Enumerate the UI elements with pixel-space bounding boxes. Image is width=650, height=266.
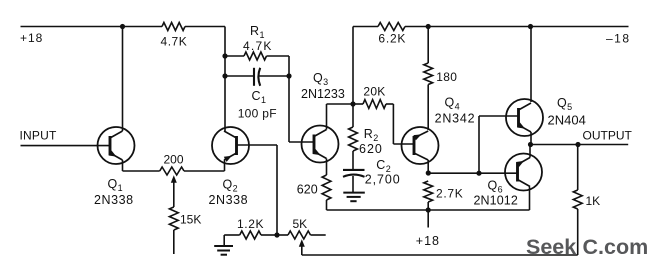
svg-text:1.2K: 1.2K	[237, 217, 264, 231]
transistor Q3 2N1233	[302, 126, 339, 163]
wire: Q5 emitter down to output node	[530, 132, 532, 145]
wire: 620 bottom to +18 rail corner	[326, 200, 328, 210]
svg-text:2N338: 2N338	[94, 193, 134, 207]
node: Q5/Q6 base branch	[476, 171, 481, 176]
wire: Q1 collector up to +18 rail	[122, 27, 124, 132]
svg-text:180: 180	[436, 70, 457, 84]
node: 180 branch at rail	[426, 24, 431, 29]
resistor 180	[424, 63, 433, 130]
svg-text:5K: 5K	[293, 217, 308, 231]
node: 20K / Q3 collector / R2 junction	[350, 101, 355, 106]
wire: Q2 emitter down to 200	[224, 160, 226, 171]
+18 terminal stub	[427, 210, 429, 228]
wire: up to Q5 base	[479, 116, 519, 173]
svg-text:INPUT: INPUT	[20, 129, 57, 143]
resistor 200 (pot body)	[123, 167, 225, 175]
svg-text:200: 200	[163, 153, 183, 167]
svg-text:620: 620	[297, 183, 318, 197]
wire: Q1 emitter down	[122, 160, 124, 171]
svg-text:2,700: 2,700	[365, 173, 401, 187]
svg-text:C.com: C.com	[583, 235, 649, 259]
resistor R2 620	[349, 127, 358, 170]
feedback bottom rail	[302, 254, 578, 256]
node: R1 left junction	[222, 53, 227, 58]
resistor 620 emitter Q3	[322, 175, 331, 200]
wire: rail drop to Q2 collector / R1C1 left	[224, 27, 226, 132]
svg-text:2N342: 2N342	[435, 112, 476, 126]
transistor Q5 2N404	[506, 99, 543, 136]
wire: rail to 180	[427, 27, 429, 64]
svg-text:+18: +18	[20, 31, 43, 45]
svg-text:100 pF: 100 pF	[238, 107, 277, 121]
svg-text:OUTPUT: OUTPUT	[583, 129, 633, 143]
wire: 20K right end down to Q4 base	[393, 104, 413, 144]
wire: input to Q1 base	[21, 145, 111, 147]
wire: rail corner down through 20K node to R2	[352, 27, 354, 128]
svg-text:620: 620	[359, 142, 383, 156]
node: C1 right junction	[286, 73, 291, 78]
svg-text:20K: 20K	[363, 85, 385, 99]
wire: Q5 collector up to -18 rail	[530, 27, 532, 103]
svg-text:2.7K: 2.7K	[436, 187, 464, 201]
svg-text:2N404: 2N404	[548, 112, 586, 127]
wire: Q6 collector down to +18 rail	[529, 187, 531, 211]
+18 bottom rail	[327, 209, 530, 211]
svg-text:–18: –18	[606, 32, 631, 46]
resistor R1 4.7K	[225, 52, 289, 60]
svg-text:6.2K: 6.2K	[378, 32, 406, 46]
resistor 5K (pot body)	[277, 231, 326, 239]
transistor Q6 2N1012	[505, 154, 542, 191]
wire: Q6 emitter up to output node	[529, 145, 531, 158]
ground at 1.2K	[214, 235, 233, 255]
transistor Q1 2N338	[98, 127, 135, 164]
svg-text:15K: 15K	[180, 213, 201, 227]
ground below C2	[343, 193, 365, 202]
node: Q5/Q6 emitter output junction	[528, 142, 533, 147]
resistor 20K	[353, 100, 393, 109]
resistor 4.7K top left	[162, 23, 185, 31]
resistor 1K	[573, 190, 582, 255]
svg-text:Seek: Seek	[526, 235, 576, 259]
node: 1K branch at output	[575, 142, 580, 147]
capacitor C1	[225, 68, 289, 86]
output wire	[531, 144, 629, 146]
resistor 15K	[169, 207, 178, 254]
svg-text:1K: 1K	[586, 194, 601, 208]
wire: output node down to 1K	[577, 145, 579, 191]
resistor 2.7K	[424, 181, 433, 210]
svg-text:2N1233: 2N1233	[301, 87, 345, 101]
wire: Q2 base right and down to 1.2K/5K junction	[237, 145, 278, 235]
-18 right supply rail	[353, 26, 629, 28]
node: 2.7K at +18 rail	[426, 207, 431, 212]
pot wiper arrow 200	[171, 175, 177, 207]
pot wiper arrow 5K and stem to feedback rail	[299, 239, 305, 255]
wire: R1/C1 right side down to Q3 base	[289, 56, 314, 142]
resistor 1.2K	[224, 231, 277, 239]
node: Q1 collector at rail	[120, 24, 125, 29]
svg-text:2N1012: 2N1012	[474, 194, 518, 208]
svg-text:4.7K: 4.7K	[161, 35, 188, 49]
node: C1 left junction	[222, 73, 227, 78]
wire: Q4 collector run to Q6 base	[428, 172, 517, 174]
node: Q4 collector / 2.7K junction	[426, 170, 431, 175]
node: Q2 base bias junction	[274, 232, 279, 237]
svg-text:4.7K: 4.7K	[243, 39, 273, 53]
svg-text:2N338: 2N338	[209, 193, 249, 207]
transistor Q4 2N342	[402, 127, 439, 164]
capacitor C2	[343, 170, 365, 192]
wire: Q3 collector up and right to 20K node	[327, 104, 354, 130]
+18 left supply rail	[21, 26, 226, 28]
node: Q5 collector at rail	[528, 24, 533, 29]
wire: Q4 collector down to 2.7K node	[427, 160, 429, 173]
transistor Q2 2N338	[212, 127, 249, 164]
svg-text:+18: +18	[416, 234, 440, 248]
wire: Q3 emitter down to 620	[326, 159, 328, 176]
resistor 6.2K	[378, 23, 405, 31]
